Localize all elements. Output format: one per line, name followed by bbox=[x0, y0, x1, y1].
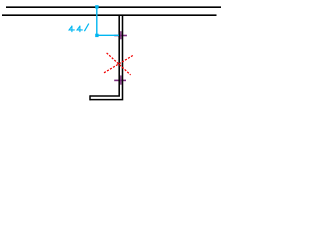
node marker upper purple cross bbox=[114, 31, 127, 39]
grip corner bbox=[95, 34, 98, 37]
wire upper wall line bbox=[6, 6, 221, 8]
wire pipe inner line (left vertical + upper horizontal) bbox=[90, 16, 119, 96]
red X deletion mark bbox=[104, 53, 133, 75]
node marker lower purple cross bbox=[114, 75, 126, 84]
wire pipe outer line (right vertical + lower horizontal) bbox=[90, 16, 122, 100]
dimension text 44 bbox=[69, 26, 82, 31]
wire pipe end cap bbox=[89, 95, 91, 100]
dimension line (selected, cyan) bbox=[97, 7, 119, 35]
wire lower wall line bbox=[2, 14, 217, 16]
grip top bbox=[95, 5, 98, 8]
dimension oblique tick bbox=[84, 24, 88, 32]
